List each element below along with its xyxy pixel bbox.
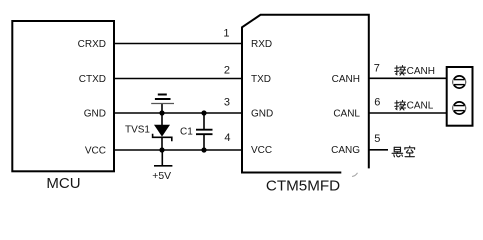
svg-text:CANL: CANL xyxy=(407,101,434,112)
svg-text:CTM5MFD: CTM5MFD xyxy=(266,178,340,195)
svg-text:VCC: VCC xyxy=(85,146,106,157)
svg-text:CRXD: CRXD xyxy=(78,39,106,50)
svg-text:GND: GND xyxy=(84,109,106,120)
svg-text:2: 2 xyxy=(224,64,230,76)
svg-text:+5V: +5V xyxy=(152,171,171,182)
svg-text:CANG: CANG xyxy=(331,145,360,156)
svg-text:1: 1 xyxy=(223,28,229,40)
svg-text:CANH: CANH xyxy=(407,66,435,77)
svg-text:GND: GND xyxy=(251,109,273,120)
svg-text:3: 3 xyxy=(224,97,230,109)
svg-text:4: 4 xyxy=(224,132,230,144)
svg-text:CANH: CANH xyxy=(332,74,360,85)
svg-text:CANL: CANL xyxy=(333,108,360,119)
svg-text:RXD: RXD xyxy=(251,39,272,50)
svg-text:5: 5 xyxy=(374,133,380,145)
svg-text:TXD: TXD xyxy=(251,74,271,85)
svg-text:MCU: MCU xyxy=(46,175,80,192)
svg-text:6: 6 xyxy=(374,97,380,109)
svg-text:CTXD: CTXD xyxy=(79,74,106,85)
svg-text:7: 7 xyxy=(374,63,380,75)
svg-text:C1: C1 xyxy=(180,126,193,137)
svg-text:VCC: VCC xyxy=(251,145,272,156)
svg-text:TVS1: TVS1 xyxy=(125,124,150,135)
